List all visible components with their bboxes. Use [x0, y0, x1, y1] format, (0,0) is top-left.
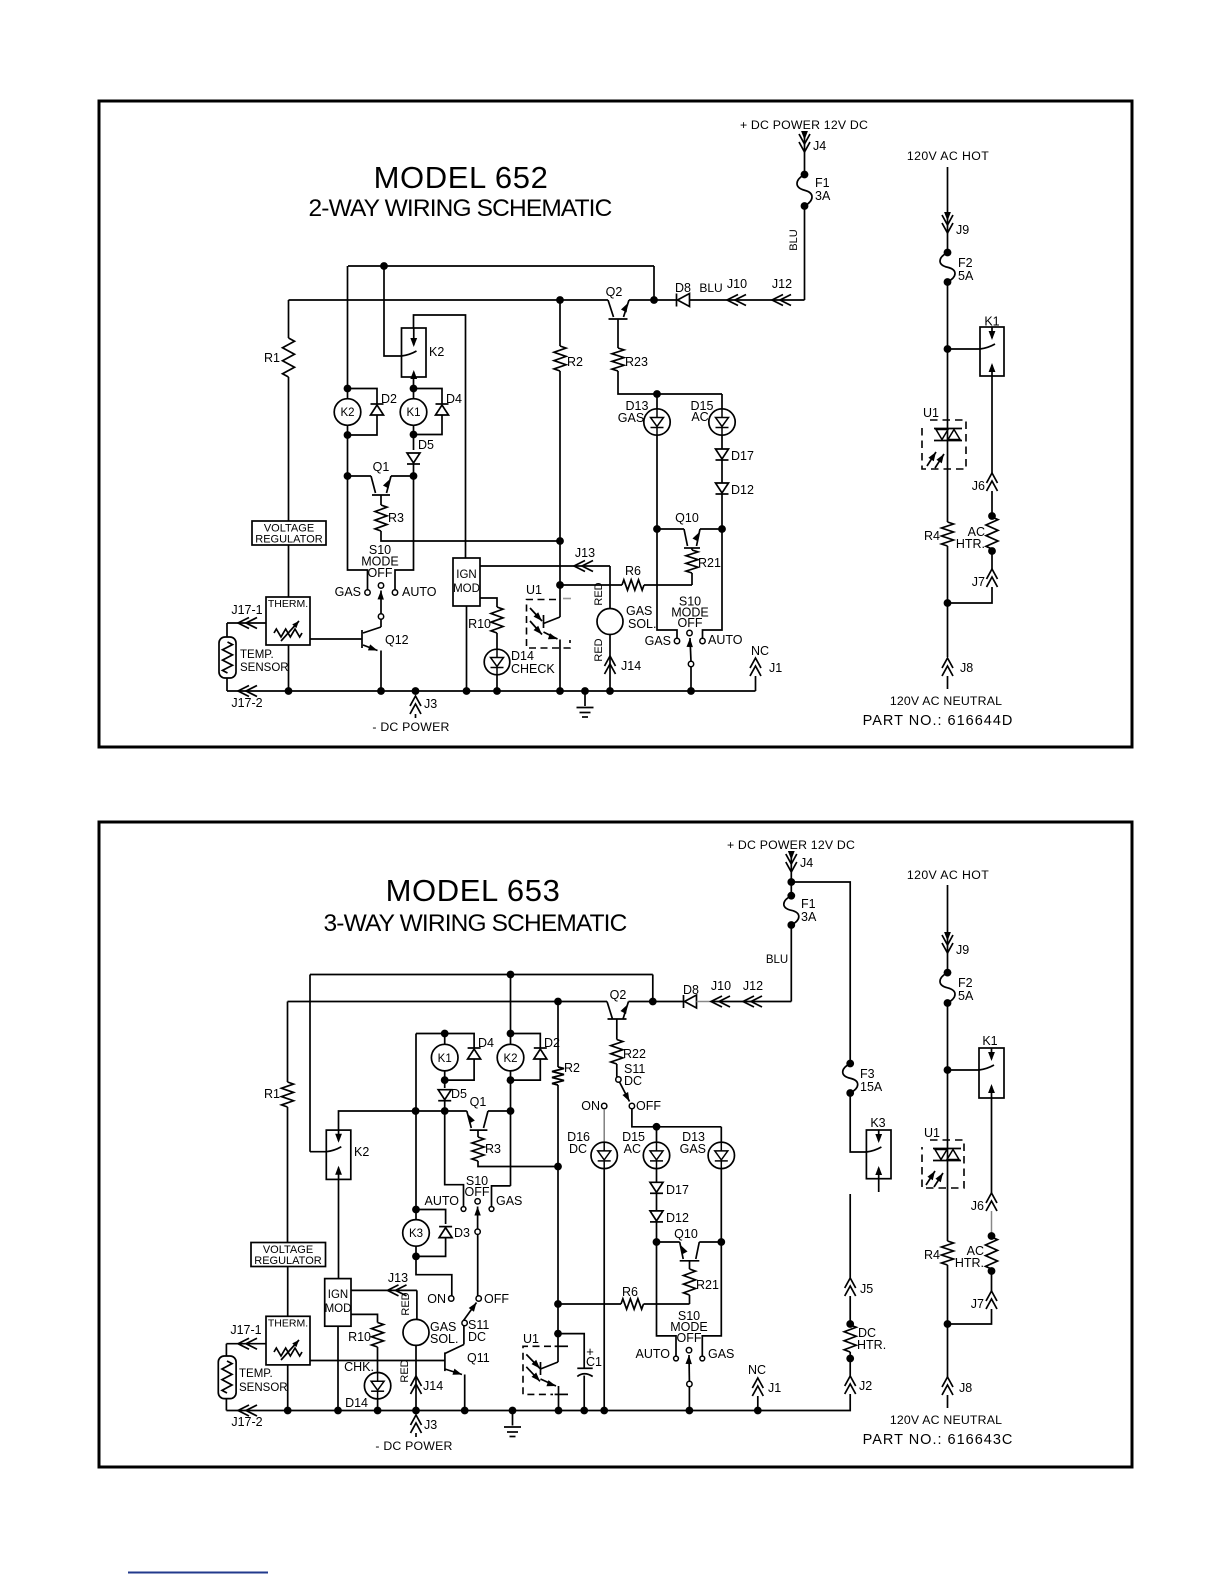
temp sensor — [218, 1356, 287, 1399]
junction — [754, 1407, 762, 1415]
svg-text:J8: J8 — [959, 1381, 972, 1395]
switch S11 DC pole A — [581, 1062, 661, 1113]
wire — [721, 435, 723, 449]
wire — [288, 300, 290, 338]
label RED — [593, 582, 605, 605]
svg-text:OFF: OFF — [677, 1331, 702, 1345]
voltage regulator box — [251, 1243, 326, 1268]
connector J4 — [799, 131, 826, 153]
connector J14 — [605, 656, 642, 674]
svg-text:U1: U1 — [923, 406, 939, 420]
svg-text:120V AC HOT: 120V AC HOT — [907, 149, 989, 163]
wire — [347, 435, 349, 476]
svg-text:D8: D8 — [675, 281, 691, 295]
wire — [849, 1296, 851, 1324]
svg-text:F3: F3 — [860, 1067, 875, 1081]
svg-text:R21: R21 — [696, 1278, 719, 1292]
subtitle 3-WAY WIRING SCHEMATIC — [324, 910, 627, 937]
svg-text:5A: 5A — [958, 269, 974, 283]
wire — [721, 461, 723, 484]
connector J9 — [942, 212, 969, 237]
wire — [654, 299, 677, 301]
wire — [656, 1222, 658, 1242]
svg-text:R3: R3 — [485, 1142, 501, 1156]
junction — [412, 1407, 420, 1415]
svg-text:J13: J13 — [575, 546, 595, 560]
gas solenoid GAS SOL. — [403, 1319, 459, 1346]
svg-text:+ DC POWER 12V DC: + DC POWER 12V DC — [740, 118, 868, 132]
wire — [652, 975, 654, 1002]
wire — [616, 1064, 618, 1077]
wire — [557, 1085, 559, 1167]
svg-text:U1: U1 — [523, 1332, 539, 1346]
transistor Q10 — [675, 511, 700, 550]
wire — [416, 1210, 446, 1225]
wire — [466, 606, 468, 691]
svg-text:F2: F2 — [958, 256, 973, 270]
wire — [416, 1110, 467, 1112]
svg-text:OFF: OFF — [368, 566, 393, 580]
junction — [344, 431, 352, 439]
svg-text:THERM.: THERM. — [268, 1318, 308, 1330]
svg-text:J17-2: J17-2 — [231, 1415, 262, 1429]
wire — [348, 476, 368, 590]
svg-text:J2: J2 — [859, 1379, 872, 1393]
svg-text:GAS: GAS — [645, 634, 671, 648]
svg-text:D5: D5 — [418, 438, 434, 452]
junction — [493, 687, 501, 695]
transistor Q1 — [467, 1095, 488, 1137]
connector J1 — [750, 658, 782, 691]
wire — [287, 1365, 289, 1411]
svg-text:J7: J7 — [971, 1297, 984, 1311]
svg-text:RED: RED — [399, 1359, 411, 1382]
wire — [559, 640, 561, 692]
wire — [948, 348, 981, 350]
svg-text:J3: J3 — [424, 1418, 437, 1432]
junction — [988, 512, 996, 520]
wire — [758, 1394, 850, 1411]
svg-text:IGN: IGN — [328, 1289, 348, 1301]
wire — [288, 1001, 608, 1003]
junction — [461, 1407, 469, 1415]
svg-text:J10: J10 — [727, 277, 747, 291]
junction — [441, 1076, 449, 1084]
label - DC POWER — [372, 720, 449, 734]
svg-text:J7: J7 — [972, 575, 985, 589]
svg-text:NC: NC — [751, 644, 769, 658]
relay contact K2 — [402, 328, 445, 379]
wire — [947, 420, 949, 522]
svg-text:J8: J8 — [960, 661, 973, 675]
connector J6 — [972, 473, 998, 493]
svg-text:SENSOR: SENSOR — [240, 662, 289, 674]
wire — [711, 1001, 791, 1003]
wire — [603, 1169, 605, 1411]
triac U1 — [922, 1126, 964, 1188]
wire — [225, 1399, 227, 1411]
relay contact K1 — [980, 315, 1004, 377]
svg-text:Q1: Q1 — [470, 1095, 487, 1109]
svg-text:RED: RED — [593, 638, 605, 661]
wire — [720, 1169, 722, 1242]
svg-text:K1: K1 — [438, 1053, 452, 1065]
svg-text:R6: R6 — [622, 1285, 638, 1299]
connector J12 — [743, 979, 763, 1007]
wire — [947, 546, 949, 657]
junction — [285, 687, 293, 695]
fuse F1 3A — [797, 171, 831, 210]
svg-text:R4: R4 — [924, 529, 940, 543]
svg-text:DC: DC — [624, 1074, 642, 1088]
border frame bottom schematic — [99, 822, 1132, 1467]
svg-text:J6: J6 — [971, 1199, 984, 1213]
svg-text:Q10: Q10 — [674, 1227, 698, 1241]
svg-text:GAS: GAS — [708, 1347, 734, 1361]
wire — [656, 1127, 658, 1142]
junction — [380, 262, 388, 270]
connector J17-1 — [230, 1323, 261, 1349]
junction — [441, 1107, 449, 1115]
svg-text:J17-1: J17-1 — [231, 603, 262, 617]
wire — [309, 975, 311, 1152]
wire — [488, 1110, 511, 1112]
wire — [644, 1303, 690, 1305]
relay coil K2 — [334, 389, 361, 436]
svg-text:D17: D17 — [666, 1183, 689, 1197]
diode D8 — [675, 281, 691, 307]
junction — [507, 971, 515, 979]
connector J13 — [574, 546, 595, 572]
wire — [657, 1241, 680, 1243]
wire — [804, 133, 806, 175]
svg-text:GAS: GAS — [680, 1142, 706, 1156]
junction — [344, 385, 352, 393]
connector J12 — [772, 277, 792, 306]
wire — [991, 376, 993, 473]
junction — [988, 1232, 996, 1240]
resistor R6 — [622, 564, 644, 590]
wire — [463, 1326, 465, 1345]
wire — [657, 1242, 677, 1356]
wire — [445, 1111, 464, 1206]
wire — [557, 1167, 559, 1305]
junction — [555, 1407, 563, 1415]
svg-text:F2: F2 — [958, 976, 973, 990]
junction — [606, 687, 614, 695]
wire — [697, 1001, 712, 1003]
svg-text:R1: R1 — [264, 1087, 280, 1101]
svg-text:U1: U1 — [924, 1126, 940, 1140]
svg-text:F1: F1 — [815, 176, 830, 190]
wire — [689, 1295, 691, 1304]
wire — [348, 389, 378, 405]
svg-text:D17: D17 — [731, 449, 754, 463]
diode D12 — [650, 1211, 689, 1225]
svg-text:OFF: OFF — [636, 1099, 661, 1113]
wire — [377, 1399, 379, 1410]
relay contact K1 — [979, 1034, 1004, 1098]
svg-text:D3: D3 — [454, 1226, 470, 1240]
wire — [381, 531, 560, 541]
wire — [480, 565, 610, 567]
diode D3 — [439, 1226, 470, 1240]
junction — [846, 1320, 854, 1328]
fuse F3 15A — [843, 1060, 883, 1097]
fuse F1 3A — [784, 892, 817, 929]
relay coil K2 — [497, 1034, 524, 1081]
svg-text:J13: J13 — [388, 1271, 408, 1285]
resistor AC HTR. — [955, 1237, 998, 1270]
svg-text:J14: J14 — [621, 659, 641, 673]
svg-text:D4: D4 — [478, 1036, 494, 1050]
svg-text:D8: D8 — [683, 983, 699, 997]
wire — [690, 299, 805, 301]
junction — [653, 1238, 661, 1246]
svg-text:J17-2: J17-2 — [231, 696, 262, 710]
connector J7 — [972, 569, 998, 589]
connector J4 — [786, 851, 813, 872]
svg-text:- DC POWER: - DC POWER — [372, 720, 449, 734]
svg-text:J12: J12 — [772, 277, 792, 291]
wire — [445, 1060, 474, 1081]
svg-text:GAS: GAS — [496, 1194, 522, 1208]
wire — [691, 573, 693, 585]
junction — [556, 296, 564, 304]
switch S10 MODE right — [645, 595, 743, 667]
label 120V AC NEUTRAL — [890, 1413, 1002, 1427]
svg-text:R22: R22 — [623, 1047, 646, 1061]
svg-text:ON: ON — [581, 1099, 600, 1113]
svg-text:15A: 15A — [860, 1080, 883, 1094]
label NC — [751, 644, 769, 658]
triac U1 — [922, 406, 966, 469]
wire — [413, 435, 415, 451]
svg-text:BLU: BLU — [699, 281, 722, 295]
svg-text:AUTO: AUTO — [708, 633, 743, 647]
svg-text:CHK.: CHK. — [344, 1360, 374, 1374]
wire — [227, 690, 756, 692]
switch S10 MODE right — [636, 1309, 735, 1387]
svg-text:J17-1: J17-1 — [230, 1323, 261, 1337]
junction — [410, 385, 418, 393]
junction — [412, 1253, 420, 1261]
resistor R2 — [554, 346, 583, 371]
wire — [287, 1107, 289, 1243]
wire — [632, 1109, 721, 1127]
resistor DC HTR. — [844, 1325, 886, 1352]
wire — [688, 1387, 690, 1411]
temp sensor — [219, 637, 289, 678]
svg-text:K2: K2 — [429, 345, 444, 359]
junction — [374, 1407, 382, 1415]
svg-text:BLU: BLU — [766, 954, 788, 966]
svg-text:TEMP.: TEMP. — [240, 649, 274, 661]
label + DC POWER 12V DC — [740, 118, 868, 132]
footer line — [128, 1572, 268, 1574]
junction — [653, 525, 661, 533]
svg-text:DC: DC — [569, 1142, 587, 1156]
wire — [289, 299, 609, 301]
border frame top schematic — [99, 101, 1132, 747]
junction — [649, 998, 657, 1006]
label BLU — [788, 229, 800, 250]
svg-text:D4: D4 — [446, 392, 462, 406]
wire — [791, 882, 850, 1064]
connector J2 — [845, 1376, 873, 1394]
wire — [804, 206, 806, 300]
lamp D16 DC — [567, 1130, 617, 1169]
svg-text:AC: AC — [624, 1142, 641, 1156]
svg-text:120V AC HOT: 120V AC HOT — [907, 868, 989, 882]
fuse F2 5A — [940, 969, 974, 1007]
wire — [629, 1001, 684, 1003]
svg-text:2-WAY WIRING SCHEMATIC: 2-WAY WIRING SCHEMATIC — [309, 195, 612, 222]
svg-text:R1: R1 — [264, 351, 280, 365]
svg-text:R10: R10 — [348, 1330, 371, 1344]
svg-text:BLU: BLU — [788, 229, 800, 250]
wire — [700, 528, 722, 530]
svg-text:DC: DC — [468, 1330, 486, 1344]
svg-text:C1: C1 — [586, 1355, 602, 1369]
thermistor THERM. — [266, 1316, 310, 1365]
junction — [988, 1267, 996, 1275]
junction — [554, 998, 562, 1006]
wire — [948, 1309, 992, 1324]
wire — [609, 634, 611, 691]
wire — [721, 394, 723, 409]
svg-text:TEMP.: TEMP. — [239, 1368, 273, 1380]
wire — [850, 1093, 866, 1152]
wire — [644, 584, 692, 586]
wire — [559, 585, 561, 617]
wire — [310, 1360, 445, 1362]
junction — [580, 1407, 588, 1415]
title MODEL 653 — [386, 873, 561, 908]
svg-text:MODEL 652: MODEL 652 — [374, 160, 549, 195]
wire — [377, 1347, 379, 1372]
lamp D13 GAS — [618, 399, 670, 435]
svg-text:+ DC POWER 12V DC: + DC POWER 12V DC — [727, 838, 855, 852]
resistor R10 — [348, 1323, 383, 1348]
junction — [507, 1107, 515, 1115]
diode D4 — [468, 1036, 494, 1059]
label RED — [400, 1292, 412, 1315]
wire — [702, 1242, 721, 1356]
gas solenoid GAS SOL. — [597, 604, 657, 635]
wire — [690, 667, 692, 691]
svg-text:J10: J10 — [711, 979, 731, 993]
svg-text:D12: D12 — [731, 483, 754, 497]
junction — [410, 431, 418, 439]
wire — [351, 1314, 378, 1322]
wire — [948, 1069, 980, 1071]
connector J5 — [845, 1278, 874, 1296]
diode D2 — [371, 392, 398, 415]
svg-text:SENSOR: SENSOR — [239, 1382, 288, 1394]
lamp D15 AC — [691, 399, 736, 435]
connector J3 — [411, 1415, 438, 1437]
wire — [849, 1194, 851, 1278]
wire — [560, 584, 622, 586]
connector J6 — [971, 1193, 997, 1213]
junction — [988, 547, 996, 555]
resistor R1 — [264, 1082, 293, 1107]
svg-text:K2: K2 — [503, 1053, 517, 1065]
svg-text:Q12: Q12 — [385, 633, 409, 647]
wire — [559, 541, 561, 585]
wire — [510, 975, 512, 1034]
wire — [226, 1343, 266, 1345]
svg-text:ON: ON — [427, 1292, 446, 1306]
junction — [410, 472, 418, 480]
wire — [947, 167, 949, 253]
wire — [557, 1304, 559, 1334]
svg-text:PART NO.: 616643C: PART NO.: 616643C — [863, 1432, 1014, 1448]
svg-text:U1: U1 — [526, 583, 542, 597]
svg-text:REGULATOR: REGULATOR — [254, 1255, 321, 1267]
junction — [846, 1355, 854, 1363]
svg-text:MOD: MOD — [325, 1303, 352, 1315]
wire — [991, 551, 993, 569]
svg-text:GAS: GAS — [335, 585, 361, 599]
capacitor C1 — [577, 1344, 602, 1377]
junction — [507, 1076, 515, 1084]
wire — [849, 1352, 851, 1376]
wire — [656, 435, 658, 529]
label 120V AC HOT — [907, 149, 989, 163]
svg-text:J14: J14 — [423, 1379, 443, 1393]
svg-text:AC: AC — [691, 410, 708, 424]
switch S10 MODE left — [425, 1174, 523, 1234]
wire — [656, 1194, 658, 1211]
label 120V AC NEUTRAL — [890, 694, 1002, 708]
junction — [944, 1320, 952, 1328]
svg-text:RED: RED — [593, 582, 605, 605]
junction — [944, 1066, 952, 1074]
label RED — [399, 1359, 411, 1382]
wire — [948, 587, 993, 603]
wire — [415, 1345, 417, 1410]
wire — [348, 475, 372, 477]
resistor R1 — [264, 338, 294, 377]
switch S11 DC pole B — [427, 1292, 509, 1344]
svg-text:AUTO: AUTO — [425, 1194, 460, 1208]
svg-text:CHECK: CHECK — [511, 662, 555, 676]
thermistor THERM. — [266, 597, 310, 645]
svg-text:R10: R10 — [468, 617, 491, 631]
svg-text:D2: D2 — [381, 392, 397, 406]
wire — [609, 566, 611, 609]
svg-text:THERM.: THERM. — [268, 598, 308, 610]
svg-text:K1: K1 — [982, 1034, 997, 1048]
wire — [699, 1241, 721, 1243]
svg-text:HTR.: HTR. — [955, 1256, 984, 1270]
junction — [650, 296, 658, 304]
wire — [413, 377, 415, 389]
svg-text:D14: D14 — [345, 1396, 368, 1410]
connector J17-1 — [231, 603, 262, 629]
wire — [947, 282, 949, 420]
wire — [721, 495, 723, 530]
wire — [991, 1211, 993, 1236]
wire — [790, 853, 792, 882]
label NC — [748, 1363, 766, 1377]
svg-text:J9: J9 — [956, 943, 969, 957]
wire — [618, 371, 722, 394]
svg-text:K1: K1 — [406, 407, 420, 419]
junction — [556, 687, 564, 695]
